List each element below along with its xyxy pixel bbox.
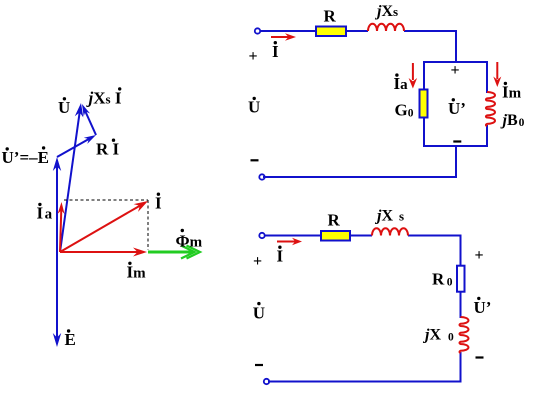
svg-text:+: + — [451, 62, 460, 79]
svg-text:jB0: jB0 — [500, 112, 525, 129]
svg-text:R I: R I — [96, 139, 120, 158]
svg-text:U’: U’ — [474, 298, 492, 317]
svg-text:U’=–E: U’=–E — [2, 148, 49, 167]
svg-text:U: U — [253, 303, 265, 322]
svg-text:jXs: jXs — [374, 208, 404, 225]
svg-text:U: U — [58, 98, 70, 117]
svg-text:+: + — [475, 247, 484, 264]
svg-text:Φm: Φm — [176, 231, 203, 250]
svg-text:+: + — [253, 253, 262, 270]
svg-text:I: I — [277, 246, 284, 265]
svg-text:E: E — [65, 330, 76, 349]
svg-text:jXs: jXs — [374, 3, 398, 20]
svg-text:I: I — [272, 42, 279, 61]
svg-text:R0: R0 — [432, 269, 453, 288]
svg-text:+: + — [249, 48, 258, 65]
svg-text:Im: Im — [127, 262, 147, 281]
svg-text:jX0: jX0 — [422, 326, 454, 343]
svg-text:Ia: Ia — [37, 204, 53, 223]
svg-text:Ia: Ia — [394, 74, 409, 93]
svg-text:U’: U’ — [448, 99, 466, 118]
svg-text:R: R — [328, 211, 341, 230]
svg-text:Im: Im — [502, 83, 522, 102]
svg-text:R: R — [324, 6, 337, 25]
svg-text:U: U — [248, 98, 260, 117]
svg-text:I: I — [155, 193, 162, 212]
svg-text:jXs I: jXs I — [86, 88, 122, 107]
svg-text:G0: G0 — [395, 101, 414, 120]
